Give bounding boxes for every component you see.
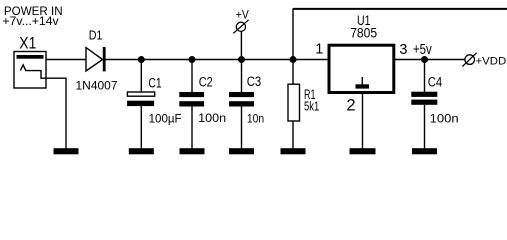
regulator U1 internal ground marker xyxy=(361,77,363,85)
svg-text:100n: 100n xyxy=(198,111,226,125)
capacitor C2 plate top xyxy=(179,92,204,97)
svg-text:D1: D1 xyxy=(89,28,103,42)
ground of C2 xyxy=(180,148,205,154)
wire C2 bottom xyxy=(191,107,193,149)
svg-text:7805: 7805 xyxy=(350,25,377,40)
ground of U1 xyxy=(350,148,376,154)
svg-text:5k1: 5k1 xyxy=(304,99,319,114)
capacitor C4 plate bottom xyxy=(411,100,437,105)
wire X1 to D1 xyxy=(46,59,86,61)
wire +V stem xyxy=(240,32,242,60)
svg-text:+VDD: +VDD xyxy=(476,55,507,67)
svg-text:3: 3 xyxy=(399,42,407,58)
wire C3 top xyxy=(241,60,243,93)
svg-text:C3: C3 xyxy=(247,74,262,89)
capacitor C1 positive plate xyxy=(127,92,154,96)
svg-text:+V: +V xyxy=(236,9,249,21)
connector X1 center pin bar xyxy=(17,55,44,59)
capacitor C2 plate bottom xyxy=(179,101,204,106)
svg-text:100n: 100n xyxy=(430,111,459,125)
wire bypass vertical left xyxy=(292,9,294,60)
regulator U1 body xyxy=(329,45,394,92)
node junction at C3 xyxy=(238,56,245,63)
svg-text:+7v...+14v: +7v...+14v xyxy=(2,15,58,28)
svg-text:C2: C2 xyxy=(199,74,213,89)
ground of C3 xyxy=(229,148,254,154)
wire C2 top xyxy=(191,60,193,93)
node junction at C4 xyxy=(421,56,428,63)
ground of X1 xyxy=(54,148,79,154)
wire D1 to U1 (main rail) xyxy=(106,59,328,61)
net flag +VDD slash xyxy=(462,53,476,67)
ground of R1 xyxy=(281,148,306,154)
svg-text:1: 1 xyxy=(315,42,323,58)
capacitor C4 plate top xyxy=(411,92,437,97)
ground of C1 xyxy=(129,148,154,154)
wire U1 pin2 to ground xyxy=(362,94,364,149)
connector X1 switch contact xyxy=(20,65,66,149)
svg-text:1N4007: 1N4007 xyxy=(76,78,118,92)
svg-text:C1: C1 xyxy=(148,75,161,90)
node junction at C1 xyxy=(138,56,145,63)
node junction at R1 xyxy=(290,56,297,63)
svg-text:100µF: 100µF xyxy=(149,112,182,126)
capacitor C1 negative plate xyxy=(127,101,154,106)
svg-text:+5v: +5v xyxy=(413,42,432,58)
wire R1 bottom xyxy=(292,121,294,149)
wire C4 bottom xyxy=(424,105,426,149)
wire C1 top xyxy=(140,60,142,92)
wire bypass top horizontal to right edge xyxy=(293,8,507,10)
wire C3 bottom xyxy=(241,107,243,149)
ground of C4 xyxy=(412,148,437,154)
capacitor C3 plate top xyxy=(229,92,254,97)
diode D1 triangle xyxy=(86,48,103,71)
connector X1 body xyxy=(14,52,46,89)
wire C1 bottom xyxy=(140,106,142,148)
svg-text:C4: C4 xyxy=(428,75,443,90)
svg-text:10n: 10n xyxy=(247,111,264,125)
resistor R1 body xyxy=(288,84,300,121)
capacitor C3 plate bottom xyxy=(229,101,254,106)
wire U1 pin3 output rail xyxy=(395,59,465,61)
svg-text:2: 2 xyxy=(346,97,355,115)
net flag +VDD circle xyxy=(465,55,475,65)
wire C4 top xyxy=(424,60,426,92)
node junction at C2 xyxy=(189,56,196,63)
wire R1 top xyxy=(292,60,294,85)
svg-text:X1: X1 xyxy=(19,35,36,53)
diode D1 cathode bar xyxy=(103,47,106,71)
